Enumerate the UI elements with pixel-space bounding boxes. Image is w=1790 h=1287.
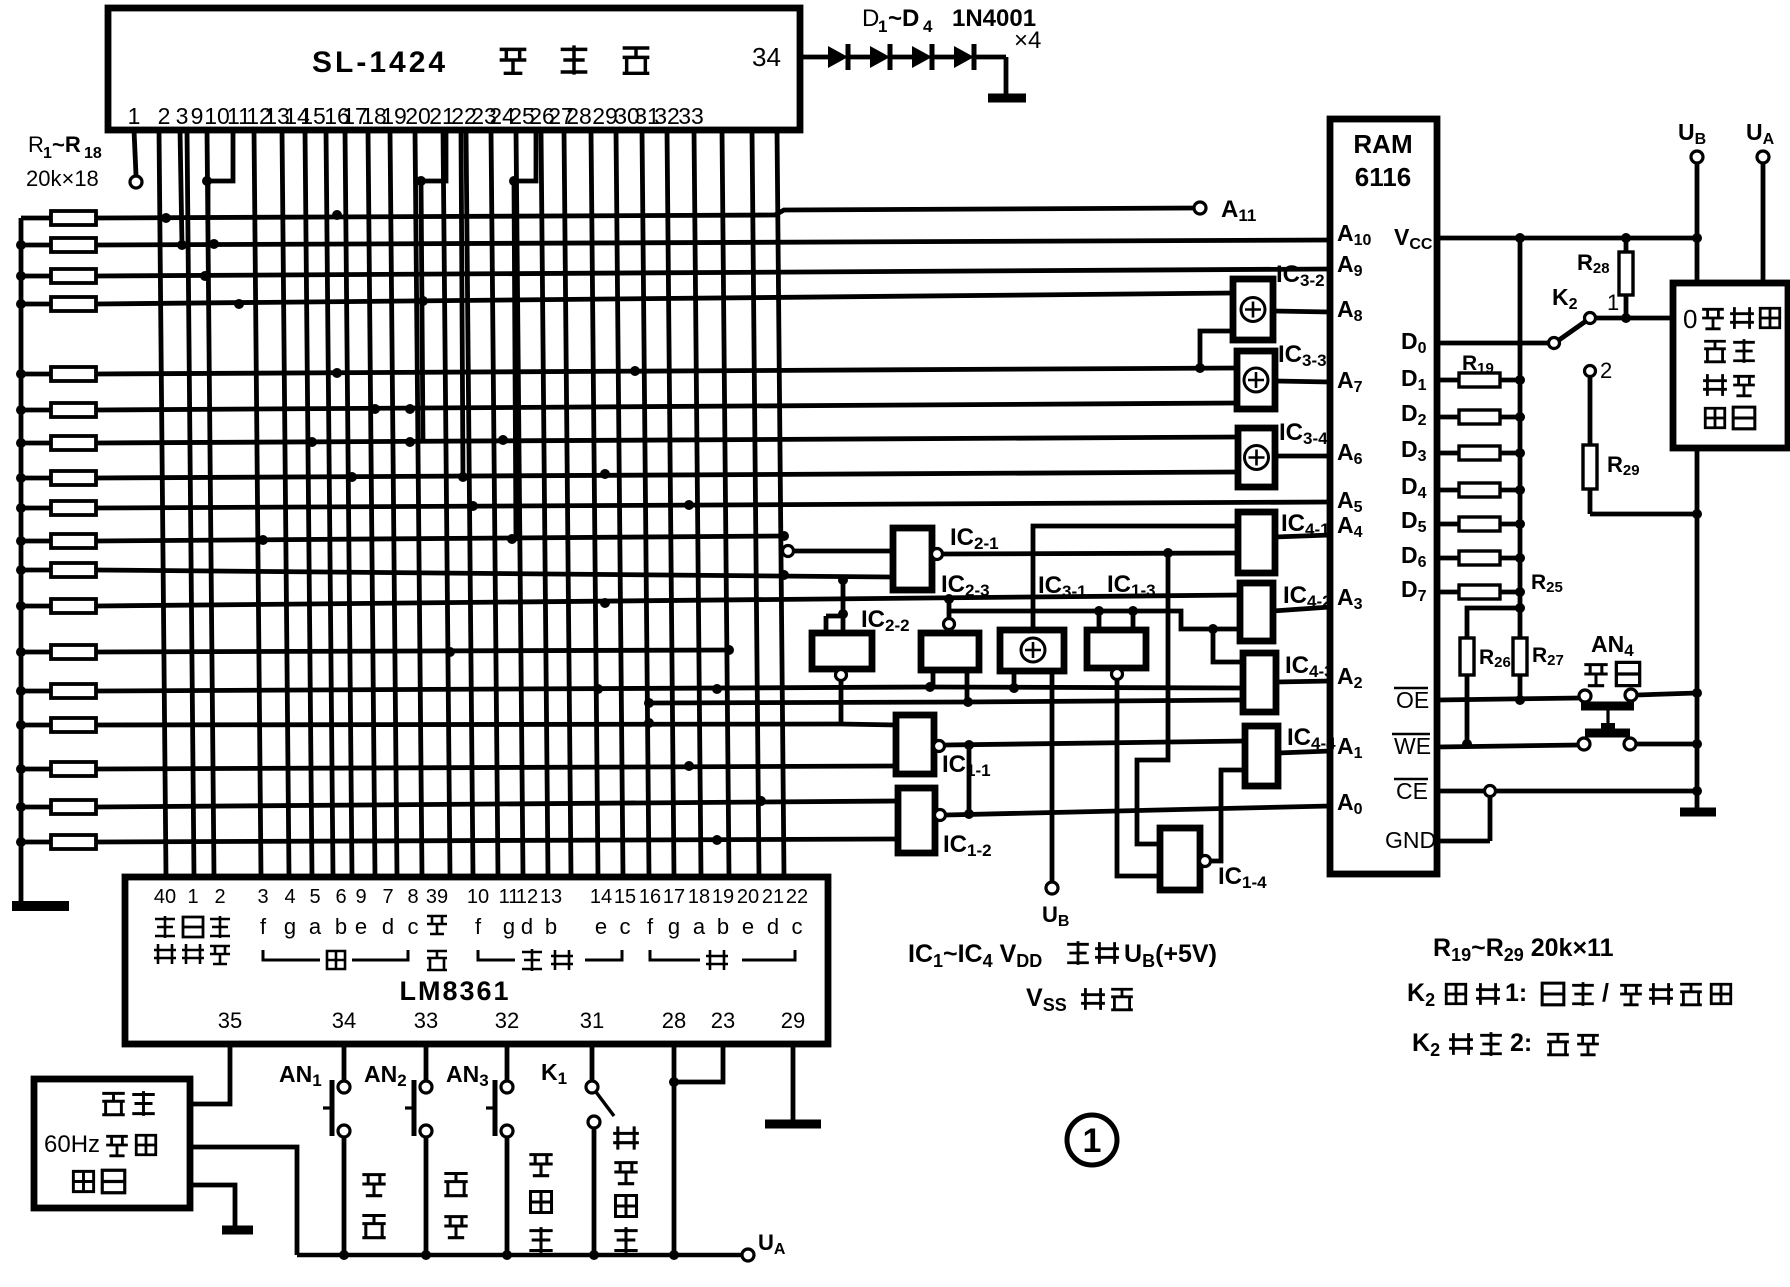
svg-text:c: c [620, 914, 631, 939]
switch K2 blade [1559, 321, 1586, 340]
svg-text:32: 32 [495, 1008, 519, 1033]
svg-text:d: d [767, 914, 779, 939]
wire IC4-3 out to A2 [1276, 681, 1330, 682]
svg-text:OE: OE [1396, 687, 1429, 713]
gate IC3-4 [1238, 428, 1275, 487]
resistor R26 [1460, 638, 1474, 675]
svg-text:CE: CE [1396, 778, 1428, 804]
junction bus R18 [16, 837, 26, 847]
wire data resistor bus [1518, 238, 1523, 638]
resistor R29 [1588, 377, 1593, 445]
svg-text:6116: 6116 [1355, 162, 1411, 192]
junction bus R6 [16, 405, 26, 415]
bubble IC2-1 out [932, 549, 943, 560]
svg-text:13: 13 [540, 886, 562, 908]
svg-text:33: 33 [414, 1008, 438, 1033]
contact AN4 a2 [1625, 689, 1637, 701]
bracket 分 [650, 950, 700, 960]
wire IC2-2 in stub a [824, 616, 829, 633]
wire display column x623 [616, 130, 623, 876]
wire row18 to IC1-2 in2 [96, 839, 898, 842]
wire row3 to RAM A9 [96, 269, 1330, 276]
bubble IC1-2 out [935, 810, 946, 821]
wire IC1-3 in stub b [1131, 611, 1136, 630]
junction bus R11 [16, 565, 26, 575]
terminal UB supply [1046, 882, 1058, 894]
svg-text:10: 10 [204, 103, 230, 129]
resistor R16 [21, 767, 51, 772]
wire VCC rail [1437, 236, 1697, 241]
svg-text:LM8361: LM8361 [399, 976, 510, 1006]
wire IC3-1 top to IC4-1 in1 [1033, 526, 1238, 630]
svg-text:16: 16 [639, 886, 661, 908]
resistor R19 [1437, 378, 1459, 383]
svg-text:28: 28 [566, 103, 592, 129]
wire row16 to IC1-1 in2 [96, 766, 896, 769]
svg-text:GND: GND [1385, 827, 1436, 853]
wire IC4-2 out to A3 [1273, 607, 1330, 611]
wire IC3-2 out to A8 [1273, 311, 1330, 312]
svg-text:10: 10 [467, 886, 489, 908]
svg-text:9: 9 [191, 103, 204, 129]
svg-text:a: a [693, 914, 706, 939]
resistor R11 [21, 568, 51, 573]
resistor R21 [1437, 451, 1459, 456]
wire row1 to A11 [96, 208, 1194, 218]
wire display column x261 [254, 130, 261, 876]
resistor R24 [1437, 556, 1459, 561]
wire UA down to box [1761, 163, 1766, 283]
svg-text:~R: ~R [52, 132, 81, 157]
svg-text:34: 34 [752, 42, 781, 72]
contact AN4 b1 [1578, 738, 1590, 750]
svg-text:28: 28 [662, 1008, 686, 1033]
wire IC2-2 out down [839, 681, 844, 724]
wire row17 to IC1-2 in1 [96, 801, 898, 807]
svg-text:/: / [1602, 979, 1609, 1007]
svg-text:g: g [284, 914, 296, 939]
wire IC2-2 out to IC1-1 in1 [841, 724, 896, 725]
svg-text:31: 31 [580, 1008, 604, 1033]
svg-text:20k×18: 20k×18 [26, 166, 99, 191]
gate IC2-3 [921, 633, 979, 670]
wire pin28 to bus [672, 1044, 677, 1255]
resistor R27 [1513, 638, 1527, 675]
resistor R28 [1624, 238, 1629, 252]
junction bus R4 [16, 299, 26, 309]
svg-text:e: e [355, 914, 367, 939]
label 写入 [1584, 665, 1607, 686]
wire IC3-3 out to A7 [1275, 381, 1330, 382]
ground symbol (right) [1680, 808, 1716, 817]
svg-text:e: e [595, 914, 607, 939]
wire IC2-3 bottom stub a [931, 670, 936, 687]
wire GND pin [1437, 839, 1490, 844]
label 十时 [210, 916, 230, 938]
svg-text:21: 21 [762, 886, 784, 908]
wire display column x598 [591, 130, 598, 876]
label 点 [427, 951, 447, 970]
svg-text:c: c [792, 914, 803, 939]
junction bus R5 [16, 369, 26, 379]
contact AN4 b2 [1624, 738, 1636, 750]
svg-text:~D: ~D [888, 5, 919, 32]
label 秒 [427, 916, 447, 934]
junction bus R15 [16, 720, 26, 730]
wire row15 to IC1-1 in1 [96, 724, 841, 725]
terminal UA bottom [742, 1249, 754, 1261]
resistor R25 [1437, 590, 1459, 595]
resistor R8 [21, 476, 51, 481]
switch K2 position 1 [1585, 313, 1596, 324]
junction bus R12 [16, 601, 26, 611]
wire display column x701 [694, 130, 701, 876]
gate IC4-2 [1240, 583, 1273, 641]
wire L4 row to IC4-3 [649, 702, 968, 703]
svg-text:15: 15 [300, 103, 326, 129]
svg-text:D: D [862, 5, 879, 32]
svg-text:5: 5 [309, 886, 320, 908]
svg-text:4: 4 [923, 17, 933, 36]
svg-text:1: 1 [1607, 290, 1619, 315]
resistor R6 [21, 408, 51, 413]
svg-text:22: 22 [786, 886, 808, 908]
wire display column x422 [415, 130, 422, 876]
wire D0 to K2 [1437, 341, 1549, 346]
svg-text:f: f [475, 914, 482, 939]
0-channel output control unit box [1673, 283, 1788, 448]
gate IC3-1 [1000, 630, 1064, 671]
wire IC3-4 out to A6 [1275, 454, 1330, 459]
bubble IC1-1 out [934, 741, 945, 752]
wire pin29 to ground [791, 1044, 796, 1122]
wire display column x548 [541, 130, 548, 876]
label 控制 [1703, 374, 1727, 396]
wire display column x375 [368, 130, 375, 876]
resistor R7 [21, 441, 51, 446]
button AN4 bar top [1581, 702, 1634, 711]
wire IC1-1 out to IC4-4 in1 [945, 741, 1245, 745]
resistor R10 [21, 539, 51, 544]
resistor R15 [21, 723, 51, 728]
svg-text:20: 20 [737, 886, 759, 908]
gate IC4-3 [1243, 653, 1276, 712]
svg-text:19: 19 [712, 886, 734, 908]
svg-text:12: 12 [516, 886, 538, 908]
wire pin34 to D1 [800, 55, 828, 60]
wire display column x333 [326, 130, 333, 876]
svg-text:2: 2 [214, 886, 225, 908]
wire row14 to IC4-3 [96, 687, 931, 691]
svg-text:34: 34 [332, 1008, 356, 1033]
svg-text:4: 4 [284, 886, 295, 908]
wire WE line [1437, 745, 1578, 747]
wire down to ground [1004, 57, 1009, 96]
wire branch to IC4-3 [1213, 629, 1243, 662]
bubble IC2-3 top [944, 619, 955, 630]
wire display column x674 [667, 130, 674, 876]
svg-text:b: b [717, 914, 729, 939]
wire to R26 [1467, 608, 1520, 638]
svg-text:23: 23 [711, 1008, 735, 1033]
wire IC4-4 out to A1 [1278, 751, 1330, 753]
display module SL-1424 box [108, 8, 800, 130]
wire IC2-1 out to IC4-1 in2 [943, 553, 1238, 554]
resistor R17 [21, 805, 51, 810]
wire CE line [1437, 789, 1693, 794]
terminal pin 1 [130, 176, 142, 188]
wire timebase to bottom bus [190, 1147, 297, 1255]
wire row4 to IC3-2 in1 [96, 293, 1233, 304]
ground symbol (timebase) [222, 1226, 253, 1235]
wire IC1-3 top input line [949, 611, 1240, 629]
wire IC2-1 in1 [793, 549, 893, 554]
wire display column x571 [564, 130, 571, 876]
bubble IC1-4 out [1200, 856, 1211, 867]
wire short column c [461, 130, 463, 478]
svg-text:3: 3 [176, 103, 189, 129]
label 输出 [1704, 341, 1726, 362]
contact AN4 a1 [1579, 690, 1591, 702]
svg-text:40: 40 [154, 886, 176, 908]
svg-text:35: 35 [218, 1008, 242, 1033]
svg-text:a: a [309, 914, 322, 939]
wire IC4-1 out to A4 [1275, 535, 1330, 537]
switch K1 [590, 1044, 595, 1081]
wire L4 extension [968, 700, 1243, 702]
svg-text:60Hz: 60Hz [44, 1131, 100, 1158]
svg-text:b: b [335, 914, 347, 939]
svg-text:WE: WE [1394, 733, 1431, 759]
wire UB supply drop [1050, 671, 1055, 882]
svg-text:SL-1424: SL-1424 [312, 46, 448, 79]
ground symbol (pin29) [765, 1120, 821, 1129]
wire row6 to IC3-3 in2 [96, 403, 1237, 410]
wire row12 to IC1-3 line [947, 599, 952, 611]
wire IC1-3 in stub a [1097, 611, 1102, 630]
wire display column x194 [187, 130, 194, 876]
label 单元 [1705, 408, 1724, 427]
diode D2 [870, 46, 890, 68]
label 编程显示 [613, 1126, 639, 1149]
diode D1 [828, 46, 848, 68]
svg-text:29: 29 [781, 1008, 805, 1033]
ground symbol (resistor bus) [12, 901, 69, 911]
wire short column a [180, 130, 182, 245]
wire display column x450 [443, 130, 450, 876]
resistor R14 [21, 689, 51, 694]
terminal A11 [1194, 202, 1206, 214]
svg-text:f: f [647, 914, 654, 939]
junction IC2-1 out [1163, 548, 1173, 558]
diode D3 [912, 46, 932, 68]
wire IC2-3 top stub [947, 611, 952, 619]
svg-text:33: 33 [678, 103, 704, 129]
svg-text:9: 9 [355, 886, 366, 908]
svg-text:3: 3 [257, 886, 268, 908]
svg-text:RAM: RAM [1353, 129, 1412, 159]
junction bus R7 [16, 438, 26, 448]
wire display column x289 [282, 130, 289, 876]
wire column elbow pins9-10 [208, 130, 233, 215]
wire IC2-2 in stub b [841, 616, 846, 633]
button AN3 [505, 1044, 510, 1081]
svg-text:1:: 1: [1505, 979, 1527, 1007]
svg-text:e: e [742, 914, 754, 939]
wire display column x312 [305, 130, 312, 876]
svg-text:18: 18 [84, 145, 102, 162]
junction bus R14 [16, 686, 26, 696]
resistor R23 [1437, 522, 1459, 527]
svg-text:d: d [521, 914, 533, 939]
svg-text:g: g [668, 914, 680, 939]
wire row9 to RAM A5 [96, 502, 1330, 508]
resistor R13 [21, 650, 51, 655]
wire IC1-2 out to RAM A0 [946, 806, 1330, 815]
svg-text:d: d [382, 914, 394, 939]
wire display column x784 [777, 130, 784, 876]
wire row8 to IC3-4 in2 [96, 472, 1238, 478]
wire row5 to IC3-3 in1 [96, 368, 1237, 374]
resistor R3 [21, 274, 51, 279]
wire UB down to box [1695, 163, 1700, 283]
wire UB rail below box [1695, 448, 1700, 810]
svg-text:×4: ×4 [1014, 27, 1041, 54]
diode D4 [954, 46, 974, 68]
svg-text:R: R [28, 132, 44, 157]
wire IC2-3 bottom stub b [965, 670, 970, 702]
resistor R12 [21, 604, 51, 609]
bubble IC2-2 out [836, 670, 847, 681]
junction CE GND [1485, 786, 1496, 797]
bracket 十分 [478, 950, 515, 960]
resistor R20 [1437, 415, 1459, 420]
svg-text:19: 19 [381, 103, 407, 129]
svg-text:17: 17 [663, 886, 685, 908]
display title 显示屏 [500, 49, 527, 73]
resistor R22 [1437, 488, 1459, 493]
svg-text:1: 1 [128, 103, 141, 129]
wire display column x352 [345, 130, 352, 876]
wire junction down to IC1-2 out [967, 745, 972, 814]
svg-text:1: 1 [1083, 1122, 1102, 1160]
junction bus R3 [16, 271, 26, 281]
wire OE line [1437, 698, 1580, 700]
resistor R1 [21, 216, 51, 221]
terminal IC2-1 in1 [783, 546, 794, 557]
wire row12 to IC4-2 in1 [96, 595, 1240, 606]
wire to IC1-4 in1 [1137, 553, 1168, 844]
ground symbol (diodes) [988, 94, 1026, 103]
wire IC2-2 in bracket [826, 614, 843, 619]
wire display column x523 [516, 130, 523, 876]
wire display column x397 [390, 130, 397, 876]
gate IC4-1 [1238, 512, 1275, 573]
junction IC1-1 out [964, 740, 974, 750]
svg-text:7: 7 [382, 886, 393, 908]
wire display column x498 [491, 130, 498, 876]
wire display column x649 [642, 130, 649, 876]
wire AN4 b to UB rail [1636, 742, 1697, 747]
gate IC1-2 [898, 788, 935, 853]
button AN4 bar bottom [1585, 729, 1630, 738]
switch K2 pole [1549, 338, 1560, 349]
gate IC4-4 [1245, 726, 1278, 786]
switch K2 position 2 [1585, 366, 1596, 377]
bracket 时 [263, 950, 320, 960]
resistor R2 [21, 243, 51, 248]
wire row13 [96, 650, 729, 652]
wire column elbow pins22-23 [514, 130, 536, 541]
svg-text:g: g [503, 914, 515, 939]
LM8361 box [125, 877, 828, 1044]
wire row2 to RAM A10 [96, 240, 1330, 245]
wire display column x166 [159, 130, 166, 876]
wire D4 to ground [974, 55, 1006, 60]
junction bus R17 [16, 802, 26, 812]
output 60Hz timebase unit box [34, 1079, 190, 1208]
resistor R9 [21, 506, 51, 511]
junction bus R2 [16, 240, 26, 250]
terminal UA [1757, 151, 1769, 163]
svg-text:6: 6 [335, 886, 346, 908]
figure number circled 1 [1067, 1115, 1117, 1165]
wire display column x759 [752, 130, 759, 876]
wire row10 [96, 536, 784, 541]
wire IC1-3 out to IC1-4 in2 [1117, 680, 1160, 876]
button AN1 [342, 1044, 347, 1081]
RAM 6116 box [1330, 119, 1437, 874]
svg-text:15: 15 [614, 886, 636, 908]
resistor R4 [21, 302, 51, 307]
gate IC3-2 [1233, 279, 1273, 340]
wire pin23 to pin28 [674, 1044, 723, 1082]
junction bus R8 [16, 473, 26, 483]
svg-text:39: 39 [426, 886, 448, 908]
wire GND up to CE [1488, 797, 1493, 841]
label 慢进 [444, 1174, 467, 1196]
svg-text:UB(+5V): UB(+5V) [1124, 940, 1217, 971]
gate IC3-3 [1237, 351, 1275, 409]
svg-text:c: c [408, 914, 419, 939]
svg-text:32: 32 [654, 103, 680, 129]
svg-text:1: 1 [43, 145, 52, 162]
wire IC3-2 in2 elbow [1200, 331, 1233, 368]
wire timebase to ground [190, 1185, 235, 1228]
junction bus R9 [16, 503, 26, 513]
wire bottom bus UA [297, 1253, 742, 1258]
wire AN4 to UB rail [1637, 693, 1697, 695]
label 快进 [362, 1175, 385, 1196]
gate IC1-4 [1160, 828, 1200, 890]
svg-text:18: 18 [688, 886, 710, 908]
label 秒显示 [529, 1155, 552, 1176]
wire IC1-4 out to IC4-4 in2 [1211, 770, 1245, 861]
label 单元 [73, 1171, 93, 1191]
svg-text:2:: 2: [1510, 1029, 1532, 1057]
junction bus R10 [16, 536, 26, 546]
svg-text:b: b [545, 914, 557, 939]
wire display column x729 [722, 130, 729, 876]
resistor R5 [21, 372, 51, 377]
wire row7 to IC3-4 in1 [96, 437, 1238, 443]
svg-text:1: 1 [187, 886, 198, 908]
svg-text:20: 20 [405, 103, 431, 129]
wire R29 to UB rail [1590, 512, 1697, 517]
junction bus R16 [16, 764, 26, 774]
wire IC2-2 feed from row11 [841, 580, 846, 616]
resistor R18 [21, 840, 51, 845]
